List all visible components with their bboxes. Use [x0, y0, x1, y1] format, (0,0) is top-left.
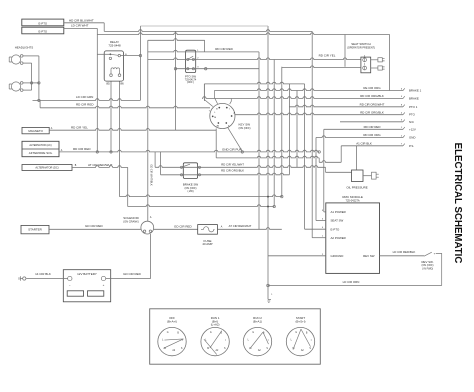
- svg-text:M: M: [164, 348, 166, 350]
- svg-text:A: A: [150, 216, 152, 219]
- svg-text:RD CIR RED: RD CIR RED: [73, 147, 91, 151]
- svg-text:A2: A2: [216, 124, 219, 127]
- svg-text:(OPERATOR PRESENT): (OPERATOR PRESENT): [347, 47, 375, 50]
- svg-text:I: I: [225, 340, 226, 342]
- svg-text:I: I: [268, 340, 269, 342]
- svg-text:RD CIR YEL: RD CIR YEL: [71, 126, 88, 130]
- svg-text:725-04227A: 725-04227A: [346, 198, 360, 202]
- svg-text:A2: A2: [258, 349, 262, 352]
- svg-text:−: −: [69, 283, 71, 287]
- svg-text:G: G: [295, 332, 297, 334]
- svg-text:+: +: [103, 283, 105, 287]
- svg-text:4: 4: [401, 113, 403, 115]
- svg-text:1: 1: [401, 127, 403, 129]
- svg-text:KEY SW: KEY SW: [239, 122, 251, 126]
- svg-text:N/C: N/C: [409, 120, 414, 124]
- svg-text:8: 8: [401, 105, 403, 107]
- svg-text:BRAKE: BRAKE: [409, 96, 419, 100]
- svg-text:L: L: [162, 339, 164, 341]
- svg-text:LD CIR GRN: LD CIR GRN: [76, 95, 93, 99]
- svg-text:S: S: [224, 348, 226, 350]
- svg-text:G: G: [210, 332, 212, 334]
- svg-text:2: 2: [197, 57, 199, 59]
- svg-text:3: 3: [401, 120, 403, 122]
- svg-text:12V BATTERY: 12V BATTERY: [77, 272, 97, 276]
- svg-text:E-PTO: E-PTO: [39, 21, 48, 25]
- svg-text:GD CIR RED: GD CIR RED: [85, 224, 104, 228]
- svg-text:REV SW: REV SW: [363, 254, 375, 258]
- svg-text:LD CIR RED/BLK: LD CIR RED/BLK: [393, 250, 416, 254]
- svg-text:5: 5: [401, 96, 403, 98]
- svg-text:+: +: [434, 252, 436, 256]
- svg-text:85: 85: [106, 82, 110, 86]
- svg-text:RD CIR YEL/WHT: RD CIR YEL/WHT: [221, 162, 244, 166]
- svg-text:AFTERFIRE SOL: AFTERFIRE SOL: [29, 151, 53, 155]
- svg-text:REV SW.: REV SW.: [421, 260, 433, 264]
- svg-text:B: B: [306, 332, 308, 334]
- svg-text:SOLENOID: SOLENOID: [123, 216, 139, 220]
- svg-text:LD CIR ORN: LD CIR ORN: [343, 280, 360, 284]
- svg-text:ALTERNATOR (AC): ALTERNATOR (AC): [29, 144, 51, 147]
- svg-text:(ON (OFF): (ON (OFF): [239, 127, 251, 130]
- svg-text:S: S: [309, 348, 311, 350]
- svg-text:GND CIR PUR: GND CIR PUR: [222, 148, 243, 152]
- svg-text:S: S: [181, 348, 183, 350]
- svg-text:GD CIR WHT/BLK: GD CIR WHT/BLK: [150, 164, 154, 186]
- svg-text:RD CIR ORG: RD CIR ORG: [363, 133, 381, 137]
- svg-text:RD CIR RED: RD CIR RED: [364, 125, 381, 129]
- svg-text:(.2W): (.2W): [187, 190, 193, 193]
- svg-text:ALTERNATOR (DC): ALTERNATOR (DC): [35, 166, 58, 170]
- svg-text:RD CIR RED: RD CIR RED: [76, 103, 94, 107]
- svg-text:14 CIR BLK: 14 CIR BLK: [35, 272, 51, 276]
- svg-text:A: A: [61, 149, 63, 152]
- svg-text:L: L: [214, 112, 216, 114]
- svg-text:B: B: [177, 332, 179, 334]
- svg-text:(B+A1): (B+A1): [253, 319, 262, 323]
- svg-text:L: L: [291, 339, 293, 341]
- svg-text:GD CIR RED: GD CIR RED: [123, 272, 142, 276]
- svg-text:SEAT SWITCH: SEAT SWITCH: [351, 42, 371, 46]
- svg-text:OIL PRESSURE: OIL PRESSURE: [346, 186, 367, 190]
- svg-text:(B+A+I): (B+A+I): [167, 319, 177, 323]
- svg-text:GD CIR RED: GD CIR RED: [174, 224, 193, 228]
- svg-text:E-PTO: E-PTO: [39, 29, 48, 33]
- svg-text:I: I: [311, 340, 312, 342]
- svg-text:2: 2: [401, 135, 403, 137]
- svg-text:A2: A2: [172, 349, 176, 352]
- svg-text:RMC MODULE: RMC MODULE: [342, 195, 363, 199]
- svg-text:PTO: PTO: [409, 113, 416, 117]
- svg-text:A: A: [221, 225, 223, 228]
- svg-text:BRAKE 1: BRAKE 1: [409, 89, 422, 93]
- svg-text:(ON CRANK): (ON CRANK): [123, 220, 139, 224]
- svg-text:RD CIR ORG/WHT: RD CIR ORG/WHT: [360, 102, 385, 106]
- svg-text:G: G: [252, 332, 254, 334]
- svg-text:(L+A2): (L+A2): [211, 323, 220, 327]
- svg-text:RD CIR YEL: RD CIR YEL: [319, 54, 336, 58]
- svg-text:86: 86: [120, 82, 124, 86]
- svg-text:L: L: [248, 339, 250, 341]
- svg-text:G: G: [167, 332, 169, 334]
- svg-text:STARTER: STARTER: [28, 228, 43, 232]
- svg-text:725-0448: 725-0448: [108, 44, 121, 48]
- svg-text:7: 7: [401, 144, 403, 146]
- svg-text:SEAT SW: SEAT SW: [331, 219, 344, 223]
- svg-text:1: 1: [271, 294, 273, 296]
- svg-text:E-PTO: E-PTO: [331, 227, 341, 231]
- svg-text:(B+S+I): (B+S+I): [296, 319, 306, 323]
- svg-text:B: B: [221, 332, 223, 334]
- svg-text:PTO 1: PTO 1: [409, 105, 418, 109]
- svg-text:ELECTRICAL SCHEMATIC: ELECTRICAL SCHEMATIC: [452, 143, 463, 264]
- svg-text:M: M: [214, 117, 216, 119]
- svg-text:RD CIR ORG/BLK: RD CIR ORG/BLK: [360, 94, 384, 98]
- svg-text:A1 CIR BLK: A1 CIR BLK: [356, 141, 372, 145]
- svg-text:M: M: [207, 348, 209, 350]
- svg-text:B: B: [75, 165, 77, 167]
- svg-text:P.S.: P.S.: [409, 144, 414, 148]
- svg-text:AT CIR RED/WHT: AT CIR RED/WHT: [229, 224, 252, 228]
- svg-text:LD CIR WHT: LD CIR WHT: [71, 24, 89, 28]
- svg-text:A: A: [51, 127, 53, 130]
- svg-text:HD CIR BLU/WHT: HD CIR BLU/WHT: [69, 18, 94, 22]
- svg-text:RD CIR RED: RD CIR RED: [215, 47, 233, 51]
- svg-text:GND: GND: [409, 136, 415, 140]
- svg-text:RE CIR ORG: RE CIR ORG: [363, 86, 381, 90]
- svg-text:(OFF ): (OFF ): [187, 81, 194, 84]
- svg-text:RD CIR ORG/BLK: RD CIR ORG/BLK: [360, 110, 384, 114]
- svg-text:6: 6: [401, 88, 403, 90]
- svg-text:+12V: +12V: [409, 127, 416, 131]
- svg-text:S: S: [266, 348, 268, 350]
- svg-text:HEADLIGHTS: HEADLIGHTS: [15, 46, 34, 50]
- svg-text:A2: A2: [215, 349, 219, 352]
- svg-text:20 AMP: 20 AMP: [202, 242, 212, 246]
- svg-text:B: B: [216, 108, 218, 110]
- svg-text:( IN FWD): ( IN FWD): [422, 268, 433, 271]
- svg-text:RD CIR ORG/BLK: RD CIR ORG/BLK: [221, 169, 244, 173]
- svg-text:I: I: [182, 340, 183, 342]
- svg-text:GROUND: GROUND: [331, 254, 344, 258]
- svg-text:I: I: [229, 108, 230, 110]
- svg-text:MAGNETO: MAGNETO: [28, 129, 43, 133]
- svg-text:BRAKE SW: BRAKE SW: [183, 182, 199, 186]
- svg-text:AT CIR RED/WHT: AT CIR RED/WHT: [88, 163, 113, 167]
- svg-text:A2 POWER: A2 POWER: [331, 236, 346, 240]
- svg-text:A1 POWER: A1 POWER: [331, 210, 346, 214]
- svg-text:A2: A2: [301, 349, 305, 352]
